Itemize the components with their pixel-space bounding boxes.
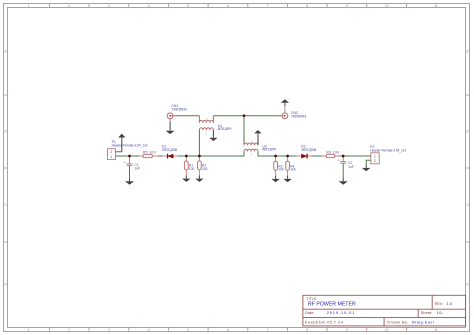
svg-text:100: 100	[202, 167, 208, 171]
svg-text:1: 1	[110, 155, 112, 159]
svg-text:Header-Female-2.54_1x2: Header-Female-2.54_1x2	[112, 143, 148, 147]
svg-text:Header-Female-2.54_1x2: Header-Female-2.54_1x2	[370, 149, 406, 153]
svg-text:1/1: 1/1	[437, 310, 443, 315]
svg-text:2019-10-01: 2019-10-01	[327, 310, 355, 315]
svg-text:Riley.Earl: Riley.Earl	[412, 319, 434, 324]
svg-text:2: 2	[68, 328, 70, 332]
svg-text:7: 7	[267, 328, 269, 332]
svg-text:B: B	[5, 130, 7, 134]
svg-text:11: 11	[434, 328, 438, 332]
svg-text:REV:: REV:	[435, 302, 443, 306]
svg-text:100: 100	[290, 168, 296, 172]
svg-text:R5 100: R5 100	[143, 150, 156, 154]
svg-text:SS72-QS08: SS72-QS08	[162, 148, 177, 152]
svg-text:1uF: 1uF	[348, 165, 354, 169]
svg-text:10: 10	[385, 4, 389, 8]
svg-text:6: 6	[227, 4, 229, 8]
svg-text:Date:: Date:	[305, 310, 315, 315]
svg-text:EasyEDA V5.7.24: EasyEDA V5.7.24	[305, 319, 344, 324]
svg-text:RF POWER METER: RF POWER METER	[308, 302, 356, 308]
svg-text:8: 8	[306, 4, 308, 8]
svg-text:R6 100: R6 100	[326, 150, 339, 154]
svg-text:ADT1-1WT+: ADT1-1WT+	[218, 127, 232, 131]
svg-text:9: 9	[346, 328, 348, 332]
svg-text:+: +	[124, 161, 126, 165]
svg-text:6: 6	[227, 328, 229, 332]
svg-text:2: 2	[110, 150, 112, 154]
svg-text:5: 5	[187, 328, 189, 332]
svg-text:SS72-QS08: SS72-QS08	[301, 148, 316, 152]
svg-text:9: 9	[346, 4, 348, 8]
svg-text:11: 11	[434, 4, 438, 8]
svg-text:100: 100	[278, 168, 284, 172]
svg-text:TITLE:: TITLE:	[307, 297, 318, 301]
svg-text:2: 2	[374, 159, 376, 163]
svg-text:+: +	[338, 159, 340, 163]
svg-text:7: 7	[267, 4, 269, 8]
svg-text:B: B	[467, 130, 469, 134]
svg-text:1.0: 1.0	[447, 301, 453, 306]
svg-text:ADT1-1WT+: ADT1-1WT+	[262, 148, 276, 152]
svg-text:1: 1	[374, 154, 376, 158]
svg-text:734035043: 734035043	[171, 108, 186, 112]
svg-text:1: 1	[28, 4, 30, 8]
svg-text:5: 5	[187, 4, 189, 8]
svg-text:4: 4	[148, 4, 150, 8]
svg-text:100: 100	[189, 167, 195, 171]
svg-text:Sheet:: Sheet:	[421, 310, 433, 315]
svg-text:3: 3	[108, 328, 110, 332]
svg-text:3: 3	[108, 4, 110, 8]
svg-text:2: 2	[68, 4, 70, 8]
svg-text:1: 1	[28, 328, 30, 332]
svg-text:10: 10	[385, 328, 389, 332]
svg-text:4: 4	[148, 328, 150, 332]
svg-text:Drawn By:: Drawn By:	[387, 319, 408, 324]
svg-text:8: 8	[306, 328, 308, 332]
svg-text:746059043: 746059043	[291, 115, 306, 119]
svg-text:1uF: 1uF	[134, 167, 140, 171]
